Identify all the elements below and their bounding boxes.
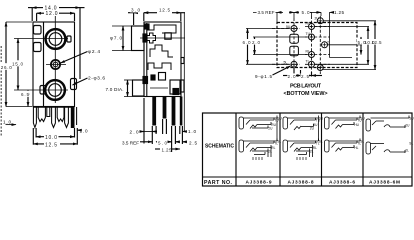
svg-text:2U: 2U [315, 17, 320, 21]
svg-text:TL: TL [274, 142, 278, 146]
svg-text:SL: SL [409, 142, 413, 146]
svg-text:AJ3388-9: AJ3388-9 [246, 179, 272, 185]
svg-text:TU: TU [316, 119, 321, 123]
svg-text:6.0: 6.0 [243, 40, 251, 45]
svg-text:12.0: 12.0 [46, 11, 58, 17]
svg-text:3.5 REF: 3.5 REF [258, 10, 275, 15]
svg-text:HL: HL [354, 146, 358, 150]
svg-text:TU: TU [306, 32, 311, 36]
svg-text:5U: 5U [286, 25, 291, 29]
svg-text:TL: TL [357, 142, 361, 146]
svg-text:2.5: 2.5 [301, 74, 309, 79]
svg-text:2U: 2U [268, 127, 273, 131]
svg-text:2.5: 2.5 [189, 140, 197, 145]
svg-text:2L: 2L [321, 65, 325, 69]
svg-text:SU: SU [409, 117, 414, 121]
svg-text:1.25: 1.25 [334, 10, 344, 15]
svg-text:HU: HU [354, 123, 359, 127]
svg-text:PART NO.: PART NO. [204, 180, 233, 186]
svg-text:10.0: 10.0 [45, 135, 57, 141]
svg-text:2.0: 2.0 [252, 40, 260, 45]
svg-text:TL: TL [306, 59, 310, 63]
svg-text:1.25: 1.25 [162, 148, 172, 153]
svg-text:3.0: 3.0 [131, 8, 140, 13]
svg-text:RL: RL [271, 146, 275, 150]
svg-text:SCHEMATIC: SCHEMATIC [205, 144, 234, 150]
svg-text:6.5: 6.5 [21, 92, 29, 97]
svg-text:<BOTTOM VIEW>: <BOTTOM VIEW> [284, 91, 328, 97]
svg-text:26.0: 26.0 [1, 65, 12, 70]
svg-text:2-φ3.6: 2-φ3.6 [88, 76, 105, 82]
svg-text:12.5: 12.5 [45, 142, 57, 148]
svg-text:3.5 REF: 3.5 REF [122, 140, 139, 145]
svg-text:1.0: 1.0 [80, 129, 88, 134]
svg-text:1.0: 1.0 [3, 120, 11, 125]
svg-text:2: 2 [327, 41, 329, 45]
svg-text:9-φ1.5: 9-φ1.5 [255, 74, 272, 79]
svg-text:φ2.4: φ2.4 [88, 49, 100, 55]
svg-text:1.0: 1.0 [188, 129, 196, 134]
svg-text:2U: 2U [405, 124, 410, 128]
svg-text:12.5: 12.5 [372, 40, 382, 45]
svg-text:2U: 2U [310, 127, 315, 131]
svg-text:AJ3388-6M: AJ3388-6M [369, 179, 400, 185]
svg-text:PCB LAYOUT: PCB LAYOUT [290, 84, 322, 90]
svg-text:2L: 2L [405, 149, 409, 153]
svg-text:15.0: 15.0 [12, 62, 23, 67]
svg-text:AJ3388-8: AJ3388-8 [288, 179, 314, 185]
svg-text:2.0: 2.0 [130, 130, 139, 135]
svg-text:AJ3388-6: AJ3388-6 [329, 179, 355, 185]
svg-text:5.0: 5.0 [158, 140, 167, 145]
svg-text:TU: TU [274, 119, 279, 123]
svg-text:RU: RU [306, 22, 311, 26]
svg-text:5L: 5L [284, 61, 288, 65]
svg-text:2L: 2L [268, 150, 272, 154]
svg-text:7.0 DIA.: 7.0 DIA. [106, 87, 124, 92]
svg-text:RL: RL [313, 146, 317, 150]
svg-text:2L: 2L [310, 150, 314, 154]
svg-text:TU: TU [357, 119, 362, 123]
svg-text:RL: RL [306, 50, 310, 54]
svg-text:2.0: 2.0 [288, 74, 296, 79]
svg-text:φ7.0: φ7.0 [110, 36, 122, 41]
svg-text:TL: TL [316, 142, 320, 146]
svg-text:5.0: 5.0 [302, 10, 310, 15]
svg-text:12.5: 12.5 [159, 8, 170, 13]
